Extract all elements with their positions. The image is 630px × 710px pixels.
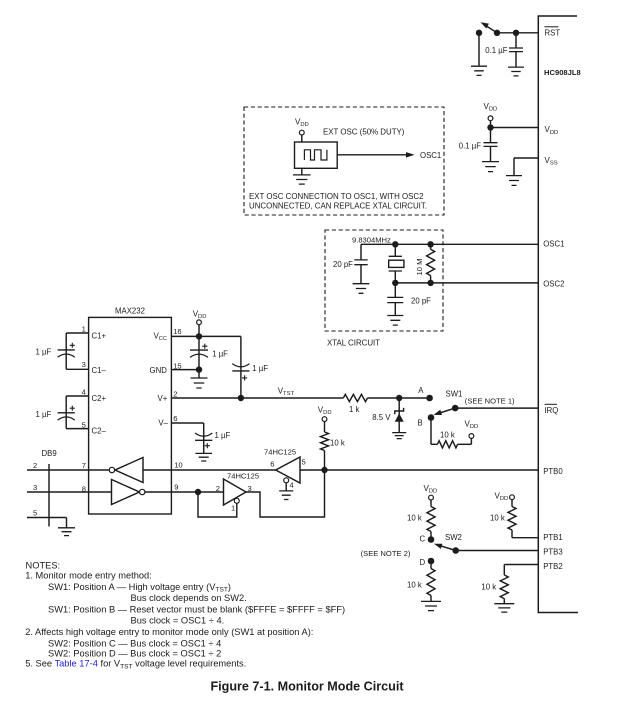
svg-text:10: 10 bbox=[174, 460, 182, 469]
U3A pin 2 number bbox=[216, 484, 220, 493]
svg-text:VDD: VDD bbox=[495, 491, 509, 502]
svg-text:XTAL CIRCUIT: XTAL CIRCUIT bbox=[327, 338, 380, 347]
C6 value 0.1 uF bbox=[485, 46, 507, 55]
svg-text:IRQ: IRQ bbox=[545, 406, 559, 415]
power VDD for PTB0 pull-up bbox=[318, 405, 332, 421]
svg-text:10 k: 10 k bbox=[481, 582, 496, 591]
wire DB9 pin2 to U1 pin7 bbox=[27, 469, 89, 471]
resistor R2 10k PTB0 pull-up bbox=[321, 422, 329, 470]
svg-text:VDD: VDD bbox=[295, 118, 309, 129]
svg-text:VDD: VDD bbox=[545, 125, 559, 136]
wire oscillator to ground bbox=[301, 168, 303, 175]
note 2 line bbox=[25, 627, 313, 637]
wire U3A output to PTB0 junction bbox=[246, 470, 325, 517]
note 1 bus clock line bbox=[131, 593, 247, 603]
capacitor C8 1uF VCC to V+ bbox=[232, 336, 249, 398]
svg-text:VDD: VDD bbox=[318, 405, 332, 416]
svg-text:5: 5 bbox=[33, 509, 37, 518]
power VDD for R4 bbox=[465, 419, 479, 438]
XTAL circuit dashed boundary bbox=[325, 230, 443, 331]
svg-text:OSC1: OSC1 bbox=[420, 151, 441, 160]
svg-text:1. Monitor mode entry method:: 1. Monitor mode entry method: bbox=[25, 570, 152, 580]
capacitor C3 1uF VCC bypass bbox=[190, 336, 208, 369]
U1 pin 1 number bbox=[82, 325, 86, 334]
J1 pin 5 number bbox=[33, 509, 37, 518]
U4A label 74HC125 bbox=[264, 448, 296, 457]
svg-text:SW2: Position C — Bus clock =: SW2: Position C — Bus clock = OSC1 ÷ 4 bbox=[48, 638, 221, 648]
label (SEE NOTE 1) bbox=[465, 397, 515, 406]
junction C3/GND bbox=[196, 366, 202, 372]
junction pin9/enable bbox=[195, 489, 201, 495]
switch S1 reset pushbutton arm bbox=[481, 22, 498, 33]
C9 value 1 uF bbox=[215, 431, 231, 440]
label EXT OSC (50% DUTY) bbox=[323, 128, 405, 137]
svg-text:SW1: SW1 bbox=[446, 389, 463, 398]
pin PTB2 label bbox=[543, 562, 563, 571]
U1 label MAX232 bbox=[115, 307, 145, 316]
node A contact bbox=[426, 395, 433, 402]
power VDD for R7 bbox=[495, 491, 515, 502]
capacitor C5 20pF (bottom) bbox=[387, 283, 403, 316]
svg-text:EXT OSC CONNECTION TO OSC1, WI: EXT OSC CONNECTION TO OSC1, WITH OSC2 bbox=[249, 192, 424, 201]
switch SW2 label bbox=[445, 533, 462, 542]
resistor R6 10k node D to ground bbox=[427, 561, 435, 601]
label (SEE NOTE 2) bbox=[361, 549, 411, 558]
ground below oscillator bbox=[293, 175, 311, 184]
power VDD for ext oscillator bbox=[295, 118, 309, 136]
wire V- pin6 to C9 bbox=[171, 423, 203, 453]
R1 value 10 M (rotated) bbox=[415, 259, 424, 276]
svg-text:8.5 V: 8.5 V bbox=[372, 413, 391, 422]
svg-text:OSC1: OSC1 bbox=[543, 239, 564, 248]
svg-text:(SEE NOTE 2): (SEE NOTE 2) bbox=[361, 549, 411, 558]
resistor R3 1k bbox=[343, 394, 367, 401]
svg-text:7: 7 bbox=[82, 461, 86, 470]
svg-text:20 pF: 20 pF bbox=[333, 260, 353, 269]
junction OSC2/crystal bbox=[392, 280, 398, 286]
svg-text:NOTES:: NOTES: bbox=[26, 560, 61, 570]
pin RST label with overline bbox=[545, 27, 561, 38]
note text ext osc line2 bbox=[249, 202, 427, 211]
svg-text:PTB1: PTB1 bbox=[543, 533, 563, 542]
svg-text:VDD: VDD bbox=[193, 309, 207, 320]
wire VDD to VDD pin bbox=[491, 121, 539, 128]
svg-text:VDD: VDD bbox=[484, 102, 498, 113]
svg-text:3: 3 bbox=[33, 483, 37, 492]
svg-text:74HC125: 74HC125 bbox=[264, 448, 296, 457]
resistor R7 10k PTB1 pull-up bbox=[508, 500, 516, 538]
label node C bbox=[420, 534, 426, 543]
ground at DB9 pin5 bbox=[58, 528, 75, 536]
U4A pin 4 number bbox=[290, 480, 294, 489]
oscillator module X2 (canned osc) bbox=[295, 142, 338, 168]
pin PTB1 label bbox=[543, 533, 563, 542]
svg-text:Bus clock depends on SW2.: Bus clock depends on SW2. bbox=[131, 593, 247, 603]
capacitor C9 1uF on V- bbox=[195, 433, 212, 448]
R8 value 10 k bbox=[481, 582, 496, 591]
node C contact bbox=[428, 536, 435, 543]
notes heading bbox=[26, 560, 61, 570]
svg-text:A: A bbox=[418, 386, 424, 395]
wire R4 to VDD bbox=[458, 439, 472, 445]
svg-text:GND: GND bbox=[150, 366, 168, 375]
connector J1 DB9 spine bbox=[48, 464, 50, 527]
wire PTB2 pin to R8 bbox=[504, 565, 538, 576]
svg-text:RST: RST bbox=[545, 28, 561, 37]
node B contact bbox=[428, 414, 435, 421]
C5 value 20 pF bbox=[411, 296, 431, 305]
svg-text:4: 4 bbox=[290, 480, 294, 489]
wire U1 pin9 to U3A input bbox=[171, 491, 223, 493]
EXT OSC option dashed boundary bbox=[244, 107, 444, 215]
svg-text:16: 16 bbox=[173, 327, 181, 336]
svg-text:SW1: Position B — Reset vector: SW1: Position B — Reset vector must be b… bbox=[48, 605, 345, 615]
connector J1 DB9 label bbox=[42, 449, 57, 458]
svg-text:2: 2 bbox=[33, 461, 37, 470]
junction RST/C6 bbox=[513, 30, 519, 36]
svg-text:4: 4 bbox=[82, 388, 86, 397]
U1 label VCC bbox=[154, 331, 167, 342]
wire DB9 pin3 to U1 pin8 bbox=[27, 491, 89, 493]
wire SW1 pole to IRQ pin bbox=[455, 407, 538, 409]
ground below C7 bbox=[482, 162, 499, 172]
svg-text:UNCONNECTED, CAN REPLACE XTAL: UNCONNECTED, CAN REPLACE XTAL CIRCUIT. bbox=[249, 202, 427, 211]
svg-text:C1+: C1+ bbox=[92, 331, 107, 340]
note text ext osc line1 bbox=[249, 192, 424, 201]
U1 pin 5 number bbox=[82, 420, 86, 429]
C2 value 1 uF bbox=[36, 410, 52, 419]
svg-text:VDD: VDD bbox=[424, 484, 438, 495]
svg-text:10 k: 10 k bbox=[407, 580, 422, 589]
svg-text:PTB3: PTB3 bbox=[543, 548, 563, 557]
wire U3A enable loop bbox=[198, 492, 237, 517]
U1 internal RS232 driver (pins 8/9) bbox=[89, 480, 172, 505]
svg-text:1: 1 bbox=[231, 503, 235, 512]
svg-text:1 k: 1 k bbox=[349, 405, 360, 414]
U1 pin 15 number bbox=[173, 362, 181, 371]
U1 label C2- bbox=[92, 427, 107, 436]
buffer U4A 74HC125 (PTB0 to U1 pin10) bbox=[276, 457, 300, 483]
svg-text:0.1 µF: 0.1 µF bbox=[485, 46, 507, 55]
switch SW2 pole bbox=[452, 547, 459, 554]
svg-text:1 µF: 1 µF bbox=[36, 410, 52, 419]
svg-text:(SEE NOTE 1): (SEE NOTE 1) bbox=[465, 397, 515, 406]
U1 pin 4 number bbox=[82, 388, 86, 397]
note 1 SW1 A line bbox=[48, 582, 231, 594]
U1 label V- bbox=[158, 419, 168, 428]
svg-text:B: B bbox=[418, 418, 423, 427]
U1 pin 16 number bbox=[173, 327, 181, 336]
U1 pin 6 number bbox=[173, 414, 177, 423]
U1 label GND bbox=[150, 366, 168, 375]
svg-text:1 µF: 1 µF bbox=[212, 349, 228, 358]
C1 value 1 uF bbox=[36, 347, 52, 356]
svg-text:Figure 7-1. Monitor Mode Circu: Figure 7-1. Monitor Mode Circuit bbox=[210, 680, 404, 694]
svg-text:C1–: C1– bbox=[92, 366, 107, 375]
svg-text:SW2: SW2 bbox=[445, 533, 462, 542]
label node A bbox=[418, 386, 424, 395]
svg-text:PTB0: PTB0 bbox=[543, 467, 563, 476]
svg-text:0.1 µF: 0.1 µF bbox=[459, 142, 481, 151]
note 1 line bbox=[25, 570, 152, 580]
wire U1 pin3 to C1 bbox=[66, 368, 88, 370]
U1 pin 3 number bbox=[82, 360, 86, 369]
svg-text:SW1: Position A — High voltage: SW1: Position A — High voltage entry (VT… bbox=[48, 582, 231, 594]
junction PTB0/R2 bbox=[321, 467, 327, 473]
wire switch left contact to ground bbox=[478, 33, 480, 66]
wire GND pin15 to ground bbox=[171, 369, 199, 371]
pin VDD label bbox=[545, 125, 559, 136]
svg-text:C2+: C2+ bbox=[92, 394, 107, 403]
svg-text:10 k: 10 k bbox=[330, 438, 345, 447]
capacitor C2 1uF bbox=[58, 396, 75, 429]
label node B bbox=[418, 418, 423, 427]
ground below C4 bbox=[353, 284, 370, 294]
junction VDD/C3 bbox=[196, 333, 202, 339]
C7 value 0.1 uF bbox=[459, 142, 481, 151]
svg-text:D: D bbox=[420, 558, 426, 567]
ground at U4A enable bbox=[279, 491, 293, 500]
label node D bbox=[420, 558, 426, 567]
power VDD for R5 bbox=[424, 484, 438, 500]
J1 pin 2 number bbox=[33, 461, 37, 470]
U3A pin 1 number bbox=[231, 503, 235, 512]
svg-text:VTST: VTST bbox=[278, 386, 295, 397]
wire RST net (switch to RST pin) bbox=[497, 32, 538, 34]
wire U4A enable to ground bbox=[285, 483, 287, 491]
buffer U3A 74HC125 (driver to PTB0 line) bbox=[224, 479, 247, 505]
wire U1 pin1 to C1 bbox=[66, 332, 88, 334]
wire SW2 pole to PTB3 pin bbox=[456, 550, 539, 552]
switch SW1 pole bbox=[452, 405, 459, 412]
wire VTST net (V+ pin2 to R3) bbox=[171, 397, 343, 399]
svg-text:PTB2: PTB2 bbox=[543, 562, 563, 571]
capacitor C1 1uF bbox=[58, 333, 75, 369]
crystal Y1 frequency 9.8304MHz bbox=[352, 235, 391, 244]
svg-text:10 M: 10 M bbox=[415, 259, 424, 276]
switch SW1 arm bbox=[434, 408, 456, 415]
ground below C6 bbox=[508, 67, 524, 76]
wire VCC pin16 net bbox=[171, 335, 241, 337]
ground below D1 bbox=[392, 433, 406, 439]
U1 pin 10 number bbox=[174, 460, 182, 469]
pin VSS label bbox=[545, 156, 558, 167]
svg-text:10 k: 10 k bbox=[407, 513, 422, 522]
J1 pin 3 number bbox=[33, 483, 37, 492]
label VTST bbox=[278, 386, 295, 397]
U3A pin 3 number bbox=[248, 484, 252, 493]
IC U2 HC908JL8 outline (left/top/bottom edges) bbox=[538, 16, 578, 613]
U1 label C1- bbox=[92, 366, 107, 375]
svg-text:1 µF: 1 µF bbox=[215, 431, 231, 440]
svg-text:DB9: DB9 bbox=[42, 449, 57, 458]
R6 value 10 k bbox=[407, 580, 422, 589]
junction OSC1/crystal bbox=[392, 241, 398, 247]
note 2 SW2 D line bbox=[48, 649, 221, 659]
ground at reset switch bbox=[471, 66, 487, 75]
note 1 SW1 B line bbox=[48, 605, 345, 615]
U1 pin 9 number bbox=[174, 483, 178, 492]
resistor R1 10M across crystal bbox=[427, 244, 435, 283]
U1 label V+ bbox=[158, 394, 168, 403]
U1 pin 7 number bbox=[82, 461, 86, 470]
R7 value 10 k bbox=[490, 513, 505, 522]
svg-text:9.8304MHz: 9.8304MHz bbox=[352, 235, 391, 244]
wire U4A output to U1 pin10 bbox=[171, 469, 275, 471]
svg-text:6: 6 bbox=[270, 459, 274, 468]
svg-text:V+: V+ bbox=[158, 394, 168, 403]
R2 value 10 k bbox=[330, 438, 345, 447]
zener diode D1 8.5V bbox=[395, 398, 404, 433]
svg-text:1: 1 bbox=[82, 325, 86, 334]
svg-text:1 µF: 1 µF bbox=[36, 347, 52, 356]
svg-text:6: 6 bbox=[173, 414, 177, 423]
wire stub to ground bbox=[198, 370, 200, 378]
R5 value 10 k bbox=[407, 513, 422, 522]
R4 value 10 k bbox=[440, 430, 455, 439]
svg-text:10 k: 10 k bbox=[440, 430, 455, 439]
switch SW2 arm bbox=[434, 544, 456, 551]
U3A enable bubble bbox=[234, 498, 239, 503]
note 2 SW2 C line bbox=[48, 638, 221, 648]
svg-text:2. Affects high voltage entry: 2. Affects high voltage entry to monitor… bbox=[25, 627, 313, 637]
svg-text:VDD: VDD bbox=[465, 419, 479, 430]
wire OSC2 net bbox=[395, 282, 538, 284]
U4A enable bubble bbox=[284, 478, 289, 483]
svg-text:9: 9 bbox=[174, 483, 178, 492]
pin IRQ label with overline bbox=[545, 404, 559, 415]
wire R3 to node A bbox=[368, 397, 430, 399]
wire R7 to PTB1 pin bbox=[512, 537, 538, 539]
svg-text:1 µF: 1 µF bbox=[252, 364, 268, 373]
junction C8/VTST net bbox=[238, 395, 244, 401]
note 5 line with Table 17-4 link bbox=[25, 659, 246, 671]
ground below C9 bbox=[195, 453, 212, 461]
svg-text:SW2: Position D — Bus clock =: SW2: Position D — Bus clock = OSC1 ÷ 2 bbox=[48, 649, 221, 659]
pin OSC1 label bbox=[543, 239, 564, 248]
wire U1 pin5 to C2 bbox=[66, 428, 88, 430]
wire U1 pin4 to C2 bbox=[66, 395, 88, 397]
C8 value 1 uF bbox=[252, 364, 268, 373]
note 1 bus clock line 2 bbox=[131, 616, 225, 626]
U1 pin 8 number bbox=[82, 484, 86, 493]
label OSC1 target bbox=[420, 151, 441, 160]
ground below C5 bbox=[387, 316, 403, 326]
C3 value 1 uF bbox=[212, 349, 228, 358]
label XTAL CIRCUIT bbox=[327, 338, 380, 347]
wire node B to R4 bbox=[431, 418, 437, 445]
svg-text:VCC: VCC bbox=[154, 331, 167, 342]
U1 label C1+ bbox=[92, 331, 107, 340]
svg-text:74HC125: 74HC125 bbox=[227, 472, 259, 481]
pin PTB0 label bbox=[543, 467, 563, 476]
svg-text:C: C bbox=[420, 534, 426, 543]
U1 internal RS232 receiver (pins 7/10) bbox=[89, 458, 172, 483]
figure caption bbox=[210, 680, 404, 694]
capacitor C6 0.1uF on RST bbox=[509, 33, 523, 67]
junction VDD/C7 bbox=[487, 124, 493, 130]
svg-text:3: 3 bbox=[82, 360, 86, 369]
node switch S1 right contact bbox=[494, 30, 500, 36]
U1 label C2+ bbox=[92, 394, 107, 403]
ground at VSS bbox=[506, 176, 522, 186]
resistor R4 10k node B bbox=[437, 441, 457, 448]
pin OSC2 label bbox=[543, 279, 564, 288]
svg-text:VSS: VSS bbox=[545, 156, 558, 167]
wire VDD to oscillator module bbox=[301, 135, 303, 142]
U1 pin 2 number bbox=[173, 389, 177, 398]
node D contact bbox=[428, 558, 435, 565]
ground below R6 bbox=[421, 601, 441, 610]
svg-text:5. See Table 17-4 for VTST vol: 5. See Table 17-4 for VTST voltage level… bbox=[25, 659, 246, 671]
svg-text:EXT OSC (50% DUTY): EXT OSC (50% DUTY) bbox=[323, 128, 405, 137]
R3 value 1 k bbox=[349, 405, 360, 414]
resistor R5 10k to node C bbox=[427, 500, 435, 539]
svg-text:2: 2 bbox=[173, 389, 177, 398]
svg-text:OSC2: OSC2 bbox=[543, 279, 564, 288]
U3A label 74HC125 bbox=[227, 472, 259, 481]
wire DB9 pin5 to ground bbox=[27, 518, 67, 528]
HC908JL8 part label bbox=[544, 68, 581, 77]
IC U1 MAX232 box bbox=[89, 317, 172, 514]
U4A pin 5 number bbox=[302, 457, 306, 466]
wire oscillator output to OSC1 arrow bbox=[337, 154, 407, 156]
svg-text:HC908JL8: HC908JL8 bbox=[544, 68, 581, 77]
capacitor C4 20pF (left) bbox=[354, 244, 367, 283]
ground at MAX232 GND bbox=[191, 378, 208, 388]
junction VTST/zener bbox=[396, 395, 402, 401]
arrowhead into OSC1 bbox=[406, 152, 415, 158]
wire VSS pin to ground bbox=[514, 158, 538, 176]
svg-text:MAX232: MAX232 bbox=[115, 307, 145, 316]
resistor R8 10k PTB2 to ground bbox=[500, 575, 508, 604]
node switch S1 left contact bbox=[476, 30, 482, 36]
wire OSC1 net bbox=[361, 243, 538, 245]
svg-text:C2–: C2– bbox=[92, 427, 107, 436]
crystal Y1 symbol bbox=[389, 244, 404, 283]
svg-text:20 pF: 20 pF bbox=[411, 296, 431, 305]
ground below R8 bbox=[494, 604, 514, 612]
svg-text:Bus clock = OSC1 ÷ 4.: Bus clock = OSC1 ÷ 4. bbox=[131, 616, 225, 626]
C4 value 20 pF bbox=[333, 260, 353, 269]
wire PTB0 net bbox=[300, 469, 538, 471]
switch SW1 label bbox=[446, 389, 463, 398]
power VDD supply symbol (bypass) bbox=[484, 102, 498, 121]
junction OSC1/R1 bbox=[427, 241, 433, 247]
U4A pin 6 number bbox=[270, 459, 274, 468]
wire VDD symbol to VCC net bbox=[198, 325, 200, 337]
svg-text:5: 5 bbox=[302, 457, 306, 466]
pin PTB3 label bbox=[543, 548, 563, 557]
junction OSC2/R1 bbox=[427, 280, 433, 286]
svg-text:10 k: 10 k bbox=[490, 513, 505, 522]
power VDD at MAX232 bbox=[193, 309, 207, 324]
D1 value 8.5 V bbox=[372, 413, 391, 422]
svg-text:V–: V– bbox=[158, 419, 168, 428]
capacitor C7 0.1uF VDD bypass bbox=[484, 128, 498, 162]
